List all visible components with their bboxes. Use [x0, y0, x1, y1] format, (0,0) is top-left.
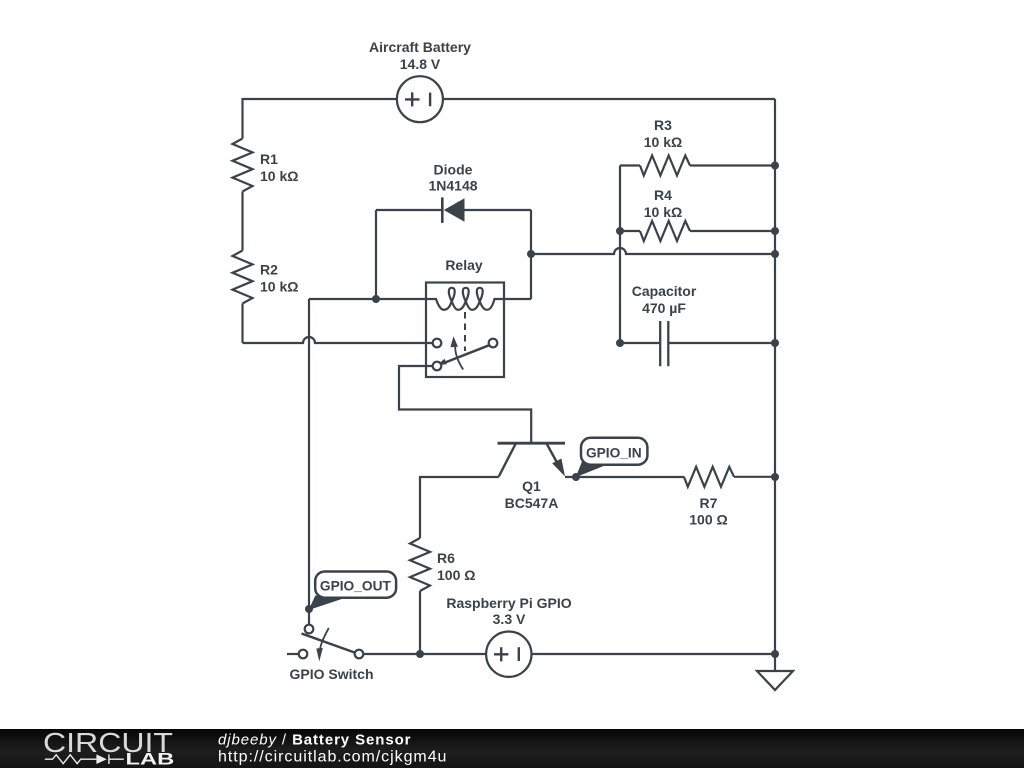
- logo diode triangle: [96, 754, 106, 764]
- svg-text:GPIO Switch: GPIO Switch: [289, 666, 373, 682]
- wire diode left drop: [375, 210, 377, 299]
- wire right vertical rail: [774, 99, 776, 654]
- switch arrow head: [316, 648, 323, 662]
- wire diode right drop: [530, 210, 532, 299]
- wire R7 right: [734, 476, 775, 478]
- flag GPIO_OUT: [309, 572, 396, 611]
- svg-text:R4: R4: [654, 187, 672, 203]
- wire R4 leads: [620, 230, 775, 232]
- svg-text:R7: R7: [700, 495, 718, 511]
- wire switch open stub: [287, 653, 299, 655]
- relay arrow head: [450, 336, 458, 347]
- wire relay top to rail with hop: [531, 248, 775, 254]
- transistor Q1 emitter diagonal: [547, 444, 562, 472]
- resistor R2: [233, 251, 253, 304]
- wire top right: [443, 98, 775, 100]
- wire bottom-left horizontal with hop: [243, 337, 433, 343]
- svg-text:BC547A: BC547A: [505, 495, 559, 511]
- transistor Q1 base bar: [498, 442, 566, 445]
- relay coil: [426, 288, 504, 310]
- wire relay NO to transistor base: [399, 366, 531, 443]
- svg-text:R2: R2: [260, 261, 278, 277]
- relay K1 box: [426, 283, 504, 378]
- resistor R4: [640, 221, 690, 241]
- flag GPIO_IN: [576, 438, 648, 478]
- wire diode left: [376, 209, 442, 211]
- svg-text:LAB: LAB: [126, 751, 175, 768]
- source V2 circle: [486, 632, 531, 677]
- resistor R7: [684, 467, 734, 487]
- wire emitter to R7: [565, 476, 684, 478]
- wire left vertical top: [241, 98, 243, 139]
- svg-text:R6: R6: [437, 550, 455, 566]
- svg-text:Raspberry Pi GPIO: Raspberry Pi GPIO: [446, 595, 571, 611]
- wire top left: [243, 98, 398, 100]
- relay blade: [437, 359, 447, 365]
- resistor R6: [410, 538, 430, 591]
- wire source to ground rail: [532, 653, 776, 655]
- wire coil right to drop: [504, 298, 531, 300]
- switch SW1 blade: [302, 634, 355, 653]
- ground symbol: [757, 671, 793, 690]
- wire R3 leads: [620, 164, 775, 166]
- footer bar: [0, 729, 1024, 768]
- svg-text:djbeeby / Battery Sensor: djbeeby / Battery Sensor: [218, 732, 411, 749]
- wire R3R4 left vertical: [619, 166, 621, 344]
- wire left vertical mid: [241, 192, 243, 251]
- svg-text:3.3 V: 3.3 V: [493, 611, 526, 627]
- source V2 plus and bar: [494, 647, 519, 661]
- svg-text:1N4148: 1N4148: [428, 178, 477, 194]
- switch SW1 terminal circles: [299, 625, 364, 659]
- svg-text:Relay: Relay: [445, 257, 483, 273]
- relay dashed link: [464, 312, 466, 351]
- wire coil feed: [309, 298, 426, 300]
- svg-text:100 Ω: 100 Ω: [437, 567, 475, 583]
- svg-text:14.8 V: 14.8 V: [400, 56, 441, 72]
- svg-text:Capacitor: Capacitor: [632, 283, 697, 299]
- svg-text:GPIO_OUT: GPIO_OUT: [320, 579, 392, 594]
- svg-text:100 Ω: 100 Ω: [689, 512, 727, 528]
- svg-text:http://circuitlab.com/cjkgm4u: http://circuitlab.com/cjkgm4u: [218, 749, 447, 766]
- battery V1 circle: [397, 76, 443, 122]
- logo squiggle: [45, 754, 124, 764]
- wire switch top vertical: [308, 299, 310, 625]
- wire diode right: [465, 209, 532, 211]
- diode D1 symbol: [442, 197, 464, 223]
- wire R6 bottom: [419, 591, 421, 654]
- wire switch to source: [364, 653, 487, 655]
- svg-text:10 kΩ: 10 kΩ: [644, 134, 682, 150]
- svg-text:R1: R1: [260, 151, 278, 167]
- wire capacitor leads: [620, 342, 775, 344]
- switch arrow: [320, 628, 329, 649]
- transistor Q1 collector diagonal: [499, 444, 516, 477]
- svg-text:10 kΩ: 10 kΩ: [644, 204, 682, 220]
- resistor R3: [640, 156, 690, 176]
- relay terminal circles: [433, 339, 498, 371]
- svg-text:GPIO_IN: GPIO_IN: [586, 446, 642, 461]
- relay actuator arrow: [455, 346, 463, 370]
- transistor Q1 emitter arrowhead: [552, 459, 565, 477]
- svg-text:R3: R3: [654, 117, 672, 133]
- wire left vertical bottom: [241, 304, 243, 344]
- ground stub: [774, 654, 776, 671]
- svg-text:10 kΩ: 10 kΩ: [260, 279, 298, 295]
- svg-text:470 µF: 470 µF: [642, 300, 686, 316]
- svg-text:10 kΩ: 10 kΩ: [260, 168, 298, 184]
- capacitor C1 plates: [660, 321, 668, 366]
- wire collector left: [420, 477, 499, 538]
- svg-text:Q1: Q1: [522, 478, 541, 494]
- svg-text:Diode: Diode: [434, 161, 473, 177]
- battery V1 plus and bar: [405, 92, 430, 106]
- resistor R1: [233, 139, 253, 192]
- svg-text:Aircraft Battery: Aircraft Battery: [369, 39, 471, 55]
